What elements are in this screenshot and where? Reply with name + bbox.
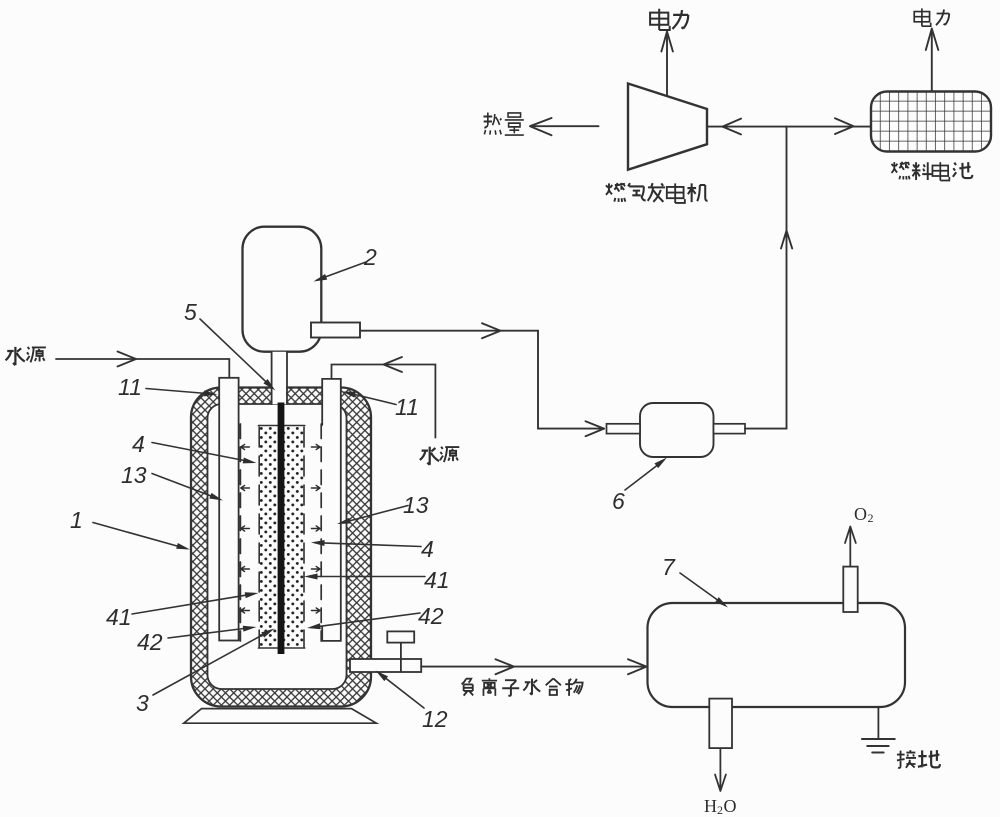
svg-text:4: 4 (132, 431, 145, 457)
svg-text:41: 41 (424, 567, 450, 593)
svg-text:H: H (704, 796, 717, 816)
pointer for label 6 (625, 461, 664, 491)
text 接地 (897, 750, 916, 768)
tank 2 (243, 227, 322, 352)
turbine: hydrogen generator (628, 84, 707, 170)
pointer for label 3 (153, 631, 271, 696)
drain outlet pipe through wall (350, 659, 421, 672)
svg-text:5: 5 (184, 299, 197, 325)
pointer for label 41 left (132, 594, 254, 614)
valve stem (400, 643, 402, 672)
text 水源 (left) (6, 347, 25, 365)
svg-text:11: 11 (395, 394, 419, 420)
svg-text:42: 42 (418, 603, 444, 629)
pointer for label 41 right (309, 576, 426, 578)
wire: fuel cell to turbine horizontal line (707, 126, 871, 128)
svg-text:4: 4 (421, 536, 434, 562)
svg-text:O: O (724, 796, 737, 816)
vessel 1 outer shell with crosshatch (191, 388, 371, 707)
wire: left water source feed (56, 359, 229, 378)
pointer for label 42 right (312, 613, 421, 627)
wire: drain line to separator 7 (421, 666, 646, 668)
svg-text:1: 1 (70, 507, 83, 533)
ground symbol (877, 707, 879, 738)
svg-text:11: 11 (118, 374, 142, 400)
text 燃料电池 (891, 162, 909, 180)
text 燃氢发电机 (606, 183, 625, 202)
arrowhead into fuel cell (right) (835, 118, 854, 134)
wire: riser from component 6 up to junction (786, 127, 788, 429)
text 电力 (top right) (914, 8, 930, 26)
svg-text:42: 42 (137, 629, 163, 655)
small flow arrows right column (311, 444, 320, 449)
H2O port (709, 699, 732, 749)
small flow arrows left column (241, 444, 250, 449)
pointer for label 5 (200, 319, 272, 388)
nozzle on tank 2 (311, 323, 360, 338)
pointer for label 12 (379, 673, 424, 708)
pointer for label 42 left (168, 628, 252, 639)
pointer for label 11 right (347, 393, 397, 405)
dashed perforated line right (electrode 42 zone) (320, 424, 322, 641)
dashed perforated line left (electrode 42 zone) (239, 424, 241, 641)
arrowhead into turbine (left) (723, 119, 742, 135)
pointer for label 13 right (342, 506, 409, 524)
text 热量 (483, 113, 501, 135)
wire: H2O arrow down (719, 748, 721, 789)
pointer for label 7 (680, 573, 725, 605)
wire: power arrow up from fuel cell (931, 30, 933, 92)
pointer for label 4 left (152, 443, 252, 463)
text 电力 (top center) (650, 9, 670, 30)
separator 7 body (648, 603, 906, 707)
wire: O2 arrow up (849, 528, 851, 567)
right port of 6 (714, 424, 746, 434)
pointer for label 1 (93, 523, 186, 549)
wire: heat arrow pointing left (533, 125, 599, 127)
svg-text:12: 12 (422, 706, 448, 732)
svg-text:2: 2 (363, 244, 377, 270)
svg-text:13: 13 (403, 492, 429, 518)
pointer for label 13 left (152, 474, 219, 500)
wire: power arrow up from turbine (666, 33, 668, 96)
svg-text:2: 2 (717, 803, 723, 817)
pointer for label 4 right (316, 543, 422, 547)
stipple electrode block 4 (258, 426, 304, 649)
text 负离子水合物 (462, 679, 474, 696)
arrowhead up on riser (781, 231, 792, 249)
wire: tank 2 outlet to down-corner (360, 331, 604, 429)
pipe 11 right (water inlet tube) (322, 379, 341, 641)
O2 port (843, 567, 857, 612)
svg-text:41: 41 (106, 604, 132, 630)
text 水源 (right) (420, 447, 439, 465)
fuel cell box with grid (871, 92, 991, 152)
wire: right water source feed (332, 365, 436, 438)
svg-text:6: 6 (612, 488, 625, 514)
black electrode rod 3 (278, 403, 285, 655)
svg-text:O: O (854, 504, 867, 524)
pointer for label 11 left (146, 389, 213, 395)
wire: from right port of 6 to riser (745, 428, 787, 430)
valve handle (387, 631, 414, 642)
left port of 6 (607, 424, 641, 434)
svg-text:2: 2 (868, 511, 874, 525)
component 6 box (640, 403, 714, 457)
svg-text:3: 3 (136, 690, 149, 716)
pipe 11 left (water inlet tube) (219, 378, 238, 641)
svg-text:13: 13 (121, 462, 147, 488)
svg-text:7: 7 (662, 554, 676, 580)
neck 5 between tank 2 and vessel (273, 352, 287, 404)
pointer for label 2 (317, 262, 366, 280)
base stand of vessel (184, 709, 376, 724)
